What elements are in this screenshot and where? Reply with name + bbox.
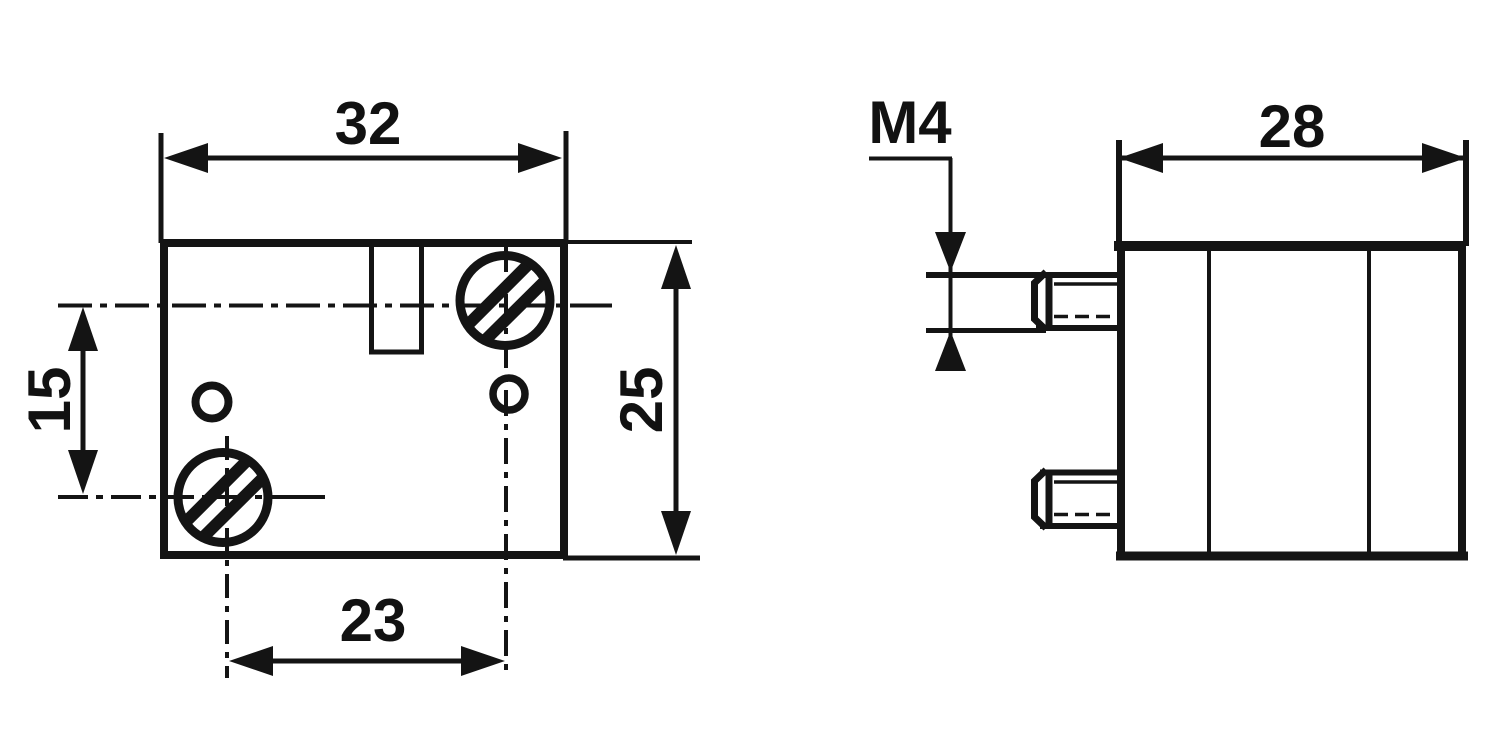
small hole right (493, 378, 525, 410)
svg-text:28: 28 (1259, 93, 1326, 160)
svg-text:32: 32 (335, 90, 402, 157)
right view: thick separation bar (1114, 241, 1466, 251)
dimension 28 arrows (1119, 143, 1466, 173)
dimension 25 line with arrows (674, 262, 679, 540)
centerline vertical left (lower screw) (225, 436, 229, 678)
dimension 25 extension lines (563, 242, 700, 558)
right view: body outline (1116, 246, 1468, 560)
M4 leader line (869, 158, 952, 368)
left view: top notch (372, 245, 422, 352)
bottom stud (threaded) (1035, 470, 1123, 529)
dimension 15 line with arrows (81, 320, 86, 480)
left view: front face outline (164, 243, 564, 555)
svg-text:15: 15 (16, 367, 83, 434)
svg-text:25: 25 (608, 367, 675, 434)
centerline vertical right (upper screw / small hole) (504, 246, 508, 678)
small hole left (196, 386, 229, 419)
dimension 32 line with arrows (180, 156, 548, 161)
lower screw head (hatched) (178, 453, 268, 543)
svg-text:M4: M4 (868, 89, 952, 156)
svg-text:23: 23 (340, 587, 407, 654)
centerline horizontal upper screw (58, 304, 612, 308)
right view: internal division lines (1209, 251, 1369, 552)
top stud (threaded) (926, 272, 1122, 331)
M4 dimension arrows (935, 232, 966, 371)
upper screw head (hatched) (460, 256, 550, 346)
right view: top flange (1117, 140, 1468, 246)
centerline horizontal lower screw (58, 495, 325, 499)
dimension 32 extension lines (161, 131, 566, 243)
dimension 23 line with arrows (246, 659, 490, 664)
